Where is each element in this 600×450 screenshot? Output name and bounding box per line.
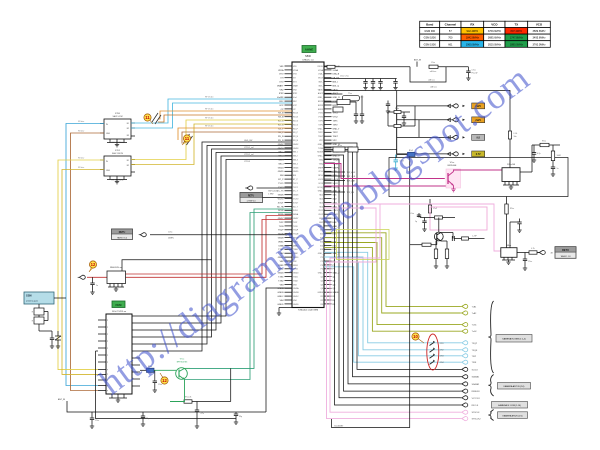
resistor R m2 [394,125,401,128]
svg-text:VC_T: VC_T [293,191,299,193]
svg-text:BT_P: BT_P [293,179,298,181]
svg-text:GNDE: GNDE [318,292,324,294]
resistor R m1 [394,111,401,114]
svg-text:TXIP: TXIP [472,356,477,358]
svg-text:1960.0MHz: 1960.0MHz [466,42,480,46]
capacitor C ant [467,67,469,71]
wire magenta TX2 [324,185,448,187]
svg-text:L7x2: L7x2 [433,208,437,210]
balloon 11 [144,114,153,124]
svg-text:SD_TA: SD_TA [277,205,284,208]
svg-text:C7xx C7xx: C7xx C7xx [340,76,349,78]
wire mid ov verticals [414,106,416,126]
svg-text:TXSE: TXSE [318,148,324,150]
wire RX1800 out A (yellow) [131,120,292,160]
svg-text:N7x0 TX/RX sw: N7x0 TX/RX sw [112,311,127,313]
svg-text:Q1: Q1 [320,277,323,279]
svg-text:B2: B2 [127,128,129,130]
wire RX1800 LO pair B (brown) [182,132,292,144]
wire magenta TX1 [324,164,445,179]
svg-text:RX dev: RX dev [78,121,84,123]
IC N900 ant sw [107,267,126,291]
svg-text:R1: R1 [321,296,323,298]
capacitor C pa1 [533,145,535,153]
resistor R pa2 (vert) [552,145,554,151]
svg-text:SD1: SD1 [319,195,323,197]
svg-text:RPLL: RPLL [318,175,323,177]
resistor R ant [429,65,438,68]
capacitor C top [372,79,374,82]
svg-text:IPR2: IPR2 [293,93,297,95]
connector pad [460,382,468,386]
capacitor C dr left [424,218,426,222]
svg-text:TXPC: TXPC [333,132,339,134]
svg-text:VCOI: VCOI [318,183,323,185]
svg-text:RX_B: RX_B [278,113,284,115]
wire teal A [190,209,292,368]
svg-text:RX_N: RX_N [278,136,284,138]
frequency table [420,21,551,47]
wire [324,171,345,173]
svg-text:TXC1: TXC1 [293,183,298,185]
svg-text:V7xx: V7xx [180,358,184,360]
connector pad [460,304,468,308]
resistor R vert above driver [506,197,508,205]
svg-text:VCP: VCP [279,105,284,107]
svg-text:XTI: XTI [293,78,296,80]
svg-text:VTX2: VTX2 [318,117,323,119]
svg-text:VXO: VXO [293,74,298,76]
resistor R pa1 [532,144,540,146]
svg-text:VC_TX: VC_TX [277,191,284,193]
svg-text:GND6: GND6 [293,195,298,197]
svg-text:942.4MHz: 942.4MHz [467,29,479,33]
wire tap [122,260,212,271]
svg-text:SEL3: SEL3 [293,160,298,162]
svg-text:B3: B3 [127,135,129,137]
svg-text:R7xx: R7xx [395,108,399,110]
svg-text:VCOI: VCOI [333,183,339,185]
svg-text:GND2: GND2 [293,144,298,146]
svg-text:GND5: GND5 [278,171,285,173]
svg-text:BSI: BSI [293,175,297,177]
wire black bus [324,163,461,405]
svg-text:TXIQ: TXIQ [319,163,324,165]
transistor V750 (pink) [446,162,461,188]
svg-text:LOCK: LOCK [318,179,324,181]
capacitor C m1 [387,101,389,105]
svg-text:VCXO: VCXO [278,199,284,201]
svg-text:4.7k: 4.7k [531,248,534,250]
svg-text:R7xx: R7xx [542,141,546,143]
svg-text:661: 661 [448,42,453,46]
capacitor mid1 [355,102,357,114]
resistor R e1 [435,241,437,249]
svg-text:RX_G: RX_G [293,124,299,126]
svg-text:VCO: VCO [536,23,543,27]
svg-text:GND: GND [106,170,111,172]
svg-text:GNDD: GNDD [293,304,299,306]
svg-text:VCXO: VCXO [293,199,299,201]
svg-text:VAGC: VAGC [318,88,324,91]
svg-text:VLNA: VLNA [318,69,324,72]
wire [140,142,292,351]
resistor R base [410,244,422,246]
capacitor series [441,232,453,234]
svg-text:GND_T: GND_T [333,128,341,130]
svg-text:VPC: VPC [319,140,324,142]
svg-text:VTX1: VTX1 [333,113,339,115]
wire cyan [324,257,461,350]
svg-text:BT_P: BT_P [278,179,284,181]
svg-text:1.78W: 1.78W [268,193,274,195]
brace group1 [488,301,493,373]
svg-text:VB3: VB3 [293,284,297,286]
connector GSM antenna jack [24,292,54,304]
svg-text:VR2: VR2 [293,89,297,91]
svg-text:RX dev: RX dev [78,157,84,159]
svg-text:R7xx 2k: R7xx 2k [185,397,192,399]
svg-text:GNDC: GNDC [277,296,284,298]
wire section box 2 [389,158,568,197]
svg-text:RX_B: RX_B [293,113,299,115]
node test points ellipse [427,334,444,370]
wire jack feed [54,297,66,299]
svg-text:xdB loss: xdB loss [430,71,437,73]
svg-text:SEL4: SEL4 [293,163,298,165]
svg-text:CTRL2_sel: CTRL2_sel [244,154,254,156]
svg-text:GNDD: GNDD [277,304,284,306]
svg-text:C7xx: C7xx [168,232,172,234]
svg-text:N900GSV sw: N900GSV sw [110,267,123,269]
svg-text:VLNA: VLNA [333,69,339,72]
transformer T700 [152,113,158,122]
connector pad out [538,250,546,254]
svg-text:27p: 27p [146,418,149,420]
svg-text:B1RX: B1RX [318,101,324,103]
capacitor C pa2 [551,167,555,169]
svg-text:XTO: XTO [293,82,297,84]
svg-text:RFOU: RFOU [318,66,324,68]
svg-text:VBATT: VBATT [277,84,284,87]
svg-text:VCO: VCO [491,23,498,27]
svg-text:TXPC: TXPC [318,132,324,134]
transformer T701 [184,134,190,143]
svg-text:GND5: GND5 [293,171,298,173]
svg-text:RX_B: RX_B [293,117,299,119]
wire driver out [517,252,529,254]
wire to pad [397,105,451,107]
node tag [472,117,485,123]
svg-text:RX_N: RX_N [293,136,299,138]
svg-text:RX_G: RX_G [293,121,299,123]
op-amp U1 main RF IC N500 [277,55,341,311]
svg-text:BFP405 M3: BFP405 M3 [177,361,188,363]
svg-text:Q2: Q2 [320,280,323,282]
wire olive [324,233,461,307]
svg-text:GND4: GND4 [278,167,285,169]
svg-text:RFCLK: RFCLK [472,405,479,407]
svg-text:TX: TX [514,23,518,27]
svg-text:3769.6MHz: 3769.6MHz [488,29,502,33]
wire rail left [96,351,237,419]
capacitor C m2 [403,112,405,116]
wire bias top [420,217,455,219]
svg-text:KAMERA ANT IN (2:6): KAMERA ANT IN (2:6) [504,385,525,388]
svg-text:RX_G: RX_G [278,124,284,126]
svg-text:RF IX dev: RF IX dev [205,126,213,128]
node FEM tag [112,301,125,308]
connector pad [451,118,459,122]
resistor R series [462,237,469,240]
wire black bus [324,155,461,391]
svg-text:GNDE: GNDE [333,292,340,294]
wire black bus [324,159,461,398]
svg-text:xdB loss: xdB loss [430,87,437,89]
connector pad [460,367,468,371]
svg-text:3920.0MHz: 3920.0MHz [488,42,502,46]
wire red B [126,220,293,275]
svg-text:L7x1: L7x1 [514,133,518,135]
svg-text:TXQP: TXQP [472,343,478,345]
svg-text:BFR540E: BFR540E [448,165,457,167]
wire antenna dip [410,67,446,82]
svg-text:1842.8MHz: 1842.8MHz [466,36,480,40]
svg-text:TXB1: TXB1 [293,277,298,279]
svg-text:XTO: XTO [279,82,284,84]
svg-text:TXIQ: TXIQ [319,160,324,162]
svg-text:N7xx PA: N7xx PA [507,163,515,166]
svg-text:GND3: GND3 [293,148,298,150]
svg-text:J703: J703 [440,356,444,358]
cluster L/C [333,107,343,112]
svg-text:SD_T: SD_T [293,206,299,208]
svg-text:SLCLK: SLCLK [472,369,479,371]
svg-text:GSM 900: GSM 900 [424,29,435,33]
connector pad [451,104,459,108]
svg-text:VPC: VPC [333,140,338,142]
inductor L7xx [508,131,511,139]
wire RX900 balanced out B (cyan) [131,103,292,128]
capacitor cyan mid [394,160,399,162]
connector pad [451,152,459,156]
svg-text:antenna jack: antenna jack [26,300,39,303]
capacitor mid2 [361,96,363,115]
IC PA N7xx [502,163,520,189]
svg-text:VB4: VB4 [293,300,297,302]
svg-text:100R: 100R [557,155,562,157]
svg-text:GND0: GND0 [293,273,298,275]
svg-text:TXIN: TXIN [472,362,477,364]
svg-text:VBAT: VBAT [293,84,299,87]
svg-text:TXF1: TXF1 [318,121,323,123]
wire to pad [397,119,451,121]
connector pad [460,354,468,358]
svg-text:VTX2: VTX2 [333,117,339,119]
balloon 10 [412,333,424,343]
node BTEMP oval [245,186,253,190]
svg-text:Band: Band [426,23,433,27]
svg-text:VREF: VREF [318,167,324,169]
svg-text:TDET: TDET [318,136,324,138]
svg-text:xdB loss: xdB loss [428,79,435,81]
svg-text:B1: B1 [127,123,129,125]
svg-text:P2: P2 [321,261,323,263]
balun boxes 147 [324,149,333,151]
wire TX line bottom [170,401,184,403]
resistor R bt1 [184,400,192,403]
svg-text:Z700: Z700 [115,113,121,115]
wire [324,175,345,177]
svg-text:897.4MHz: 897.4MHz [511,29,523,33]
capacitor C top [380,79,382,82]
svg-text:4.7u: 4.7u [201,413,205,415]
svg-text:3.7V: 3.7V [476,153,481,156]
balun box mid [337,100,350,105]
svg-text:RX_P: RX_P [293,128,299,130]
resistor pair mid [324,93,342,95]
box T7xx [342,95,359,101]
svg-text:P1: P1 [321,257,323,259]
svg-text:ANT_IN: ANT_IN [58,398,66,401]
svg-text:4.7p: 4.7p [537,153,541,155]
capacitor C top [365,79,367,82]
svg-text:GND_V: GND_V [333,156,341,158]
svg-text:RF IX dev: RF IX dev [205,97,213,99]
svg-text:C7xx: C7xx [528,261,532,263]
IC RETU clock [112,229,133,240]
wire RX900 LO pair A (orange) [158,111,292,119]
resistor R rf [327,65,335,68]
transistor V7xx [176,358,188,379]
connector pad [460,417,468,421]
svg-text:1u: 1u [96,285,98,287]
svg-text:10n: 10n [514,136,517,138]
resistor blue mid [397,154,408,156]
wire olive [324,238,461,313]
node clock oval [139,233,147,237]
wire emitter down [170,380,185,402]
svg-text:GNDB: GNDB [293,292,299,294]
svg-text:TXQN: TXQN [472,350,478,352]
svg-text:SENA: SENA [293,213,299,216]
svg-text:R3: R3 [321,304,323,306]
resistor R e2 [446,241,448,249]
svg-text:XOUT: XOUT [278,202,285,204]
IC N8xx [501,245,517,264]
ground under IC [278,308,280,312]
svg-text:SCLK: SCLK [293,210,299,212]
svg-text:RFBUSX: RFBUSX [472,391,481,393]
svg-text:B2: B2 [127,165,129,167]
svg-text:12: 12 [162,378,167,383]
svg-text:GSM: GSM [26,295,31,298]
svg-text:RX dev: RX dev [78,167,84,169]
svg-text:KAMERA RxGSM (1:1-4): KAMERA RxGSM (1:1-4) [502,338,526,341]
capacitor C under FEM [196,402,198,411]
svg-text:GSM 1800: GSM 1800 [424,36,437,40]
svg-text:11: 11 [185,136,190,141]
svg-text:SEL4: SEL4 [278,163,284,165]
wire RX900 LO pair B (orange) [158,115,292,122]
svg-text:GSM 1900: GSM 1900 [424,42,437,46]
svg-text:11: 11 [145,115,150,120]
svg-text:RF IX dev: RF IX dev [205,118,213,120]
svg-text:GNDB: GNDB [277,292,284,294]
connector pad [460,329,468,333]
svg-text:3495.6MHz: 3495.6MHz [532,36,546,40]
svg-text:MODE: MODE [317,152,323,154]
svg-text:GNDC: GNDC [293,296,299,298]
svg-text:RFC: RFC [293,101,298,103]
svg-text:3685.6MHz: 3685.6MHz [488,36,502,40]
svg-text:SCLK: SCLK [278,210,284,212]
connector pad [460,311,468,315]
node olive enclosure [337,230,390,260]
svg-text:R2: R2 [321,300,323,302]
svg-text:C7xx: C7xx [158,384,162,386]
svg-text:SEL1: SEL1 [293,152,298,154]
wire [140,146,292,345]
svg-text:GND: GND [106,133,111,135]
svg-text:TSP_AUX: TSP_AUX [347,171,357,174]
connector pad [460,348,468,352]
svg-text:VCTCXO: VCTCXO [472,398,481,400]
ESD components [32,304,61,348]
capacitor C top [395,79,397,82]
svg-text:TXIP: TXIP [279,222,284,224]
svg-text:TXF1: TXF1 [333,121,339,123]
connector left [78,275,86,279]
svg-text:RETU: RETU [562,249,569,252]
svg-text:B1: B1 [127,160,129,162]
wire black bus [324,147,461,377]
wire cyan [324,267,461,362]
wire cyan [324,252,461,342]
svg-text:TAHVO 1.8: TAHVO 1.8 [560,255,571,258]
svg-text:N500: N500 [305,55,311,58]
svg-text:RX_P: RX_P [293,132,299,134]
connector pad [460,389,468,393]
wire [140,160,292,317]
svg-text:LNA_B: LNA_B [333,73,340,76]
wire RX900 balanced out A (cyan) [131,99,292,123]
connector pad [460,410,468,414]
connector pad [460,396,468,400]
svg-text:GND_R: GND_R [333,97,341,99]
resistor R blue [140,369,147,371]
capacitor C tr [154,370,156,381]
svg-text:TDET: TDET [333,136,339,138]
svg-text:33p: 33p [239,416,242,418]
svg-text:TxModule xLAI GSM: TxModule xLAI GSM [298,308,318,311]
svg-text:VCOQ: VCOQ [317,187,323,189]
wire RX900 input (cyan) [66,124,104,386]
svg-text:MIX_Q: MIX_Q [333,85,340,87]
capacitor C bottom1 [91,412,93,418]
svg-text:VB1: VB1 [293,66,297,68]
wire RX1800 LO pair A (orange) [178,128,292,140]
svg-text:TXIQ1: TXIQ1 [333,160,340,162]
capacitor C right driver [509,222,511,248]
svg-text:Q4: Q4 [320,288,323,290]
connector pad [460,403,468,407]
svg-text:RX_P: RX_P [278,132,284,134]
svg-text:TXC1: TXC1 [278,183,284,185]
svg-text:KAMERA BRUS (1:6): KAMERA BRUS (1:6) [503,414,523,417]
connector pad [460,341,468,345]
wire [324,180,345,182]
